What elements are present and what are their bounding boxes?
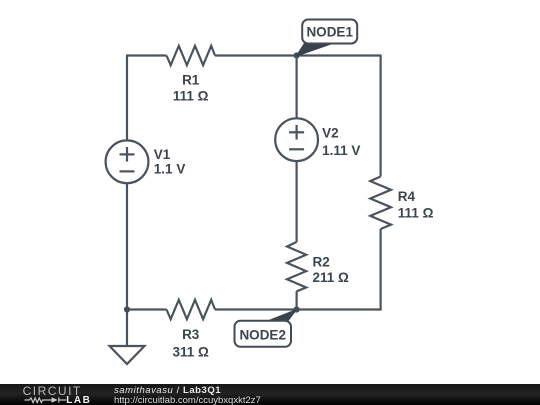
wire bottom horizontal left (junction to R3) — [126, 308, 167, 310]
label V1 value — [154, 147, 186, 177]
wire top horizontal left (corner to R1) — [126, 54, 167, 56]
node NODE1 flag — [296, 20, 357, 57]
svg-text:R1: R1 — [182, 73, 200, 88]
svg-text:111 Ω: 111 Ω — [398, 205, 434, 220]
svg-text:R3: R3 — [182, 327, 200, 342]
wire middle vertical mid (V2 bottom to R2 top) — [296, 161, 298, 242]
label R2 value — [313, 254, 350, 285]
wire right vertical upper (corner to R4 top) — [380, 55, 382, 177]
wire top horizontal right (R1 to top-right corner, through NODE1) — [215, 54, 381, 56]
wire left vertical lower (V1 bottom to bottom-left junction) — [126, 183, 128, 311]
ground symbol — [110, 310, 145, 365]
wire right vertical lower (R4 bottom to bottom-right corner) — [380, 229, 382, 310]
wire left vertical upper (corner to V1 top) — [126, 56, 128, 141]
voltage source V2 symbol — [275, 118, 318, 161]
svg-text:NODE2: NODE2 — [239, 327, 286, 342]
svg-text:V2: V2 — [322, 126, 339, 141]
voltage source V1 symbol — [106, 140, 149, 183]
node NODE2 flag — [235, 310, 297, 347]
svg-text:1.11 V: 1.11 V — [322, 143, 360, 158]
node NODE1 dot — [294, 52, 300, 58]
wire bottom horizontal right (R3 to bottom-right corner, through NODE2) — [215, 308, 382, 310]
label R3 value — [173, 327, 210, 359]
wire middle vertical upper (NODE1 to V2 top) — [296, 56, 298, 119]
svg-text:1.1 V: 1.1 V — [154, 161, 186, 176]
svg-text:111 Ω: 111 Ω — [173, 89, 209, 104]
resistor R4 body — [370, 177, 391, 230]
footer bar — [0, 384, 540, 405]
CircuitLab logo — [0, 384, 100, 405]
node junction dot bottom-left — [124, 306, 130, 312]
wire middle vertical lower (R2 bottom to NODE2) — [296, 291, 298, 309]
svg-text:LAB: LAB — [66, 395, 91, 405]
resistor R2 body — [287, 242, 306, 291]
resistor R3 body — [167, 300, 216, 319]
svg-text:311 Ω: 311 Ω — [173, 344, 210, 359]
label R4 value — [398, 189, 434, 220]
resistor R1 body — [167, 46, 216, 65]
svg-text:211 Ω: 211 Ω — [313, 270, 350, 285]
svg-text:R2: R2 — [313, 254, 330, 269]
svg-text:V1: V1 — [154, 147, 171, 162]
svg-text:NODE1: NODE1 — [306, 24, 353, 39]
label R1 value — [173, 73, 209, 104]
node NODE2 dot — [294, 306, 300, 312]
svg-text:R4: R4 — [398, 189, 416, 204]
label V2 value — [322, 126, 360, 158]
